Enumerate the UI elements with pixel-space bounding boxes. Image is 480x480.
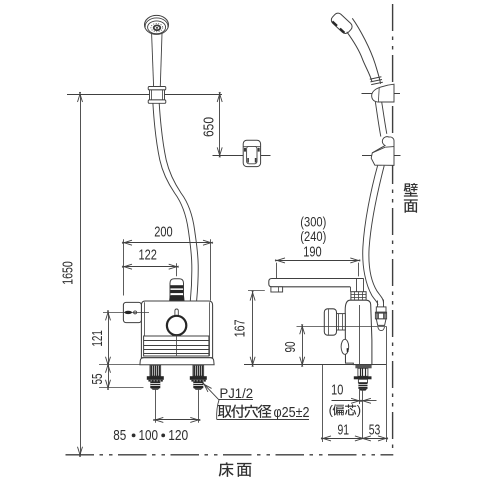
body oval (side)	[341, 339, 349, 354]
hook level line (front)	[213, 155, 271, 157]
ext line 91 left	[322, 365, 324, 442]
svg-text:(: (	[329, 403, 334, 418]
hose nipple (front)	[169, 279, 184, 301]
left inlet leg (front)	[147, 365, 164, 390]
lever knob circle (front)	[167, 316, 186, 335]
svg-text:200: 200	[154, 224, 172, 241]
ext line legs bottom	[99, 387, 144, 389]
shower handle end rings (side)	[370, 77, 383, 85]
dim 1650 text	[59, 261, 76, 285]
label 床面	[219, 462, 252, 476]
dim labels 300 240	[300, 214, 326, 245]
svg-text:55: 55	[89, 374, 106, 385]
shank axis line (bottom)	[362, 389, 364, 438]
svg-text:(240): (240)	[300, 229, 326, 245]
ext lines 190	[277, 263, 359, 285]
dim 190	[275, 244, 360, 263]
hose below hook (side)	[363, 166, 384, 305]
handle stem (side)	[337, 314, 346, 330]
shank (side)	[354, 365, 372, 391]
deck line (side)	[244, 364, 386, 366]
ext lines 200/122	[124, 239, 211, 300]
wall line (dash-dot)	[392, 4, 394, 454]
handle axis line (side)	[297, 326, 387, 328]
ext line deck left	[99, 364, 140, 366]
holder level line (front)	[67, 94, 222, 96]
dim 650 text	[201, 117, 218, 137]
faucet body (side)	[345, 300, 372, 364]
svg-text:190: 190	[303, 244, 321, 261]
hook level line (side)	[362, 155, 401, 157]
dim 167	[232, 291, 256, 367]
svg-text:90: 90	[282, 342, 299, 353]
shower head (front)	[145, 15, 169, 34]
shower head (side)	[329, 11, 353, 35]
svg-text:650: 650	[201, 117, 218, 137]
spout outlet	[271, 287, 283, 292]
dim 85 100 120	[113, 417, 200, 444]
left leg center line	[155, 390, 157, 423]
ribbed section (front)	[144, 336, 209, 356]
shower handle (side)	[347, 18, 381, 84]
svg-text:φ25±2: φ25±2	[274, 404, 310, 421]
shower hose (front)	[153, 103, 198, 301]
dim 122	[122, 247, 179, 270]
hook (side)	[371, 137, 394, 166]
spout axis line (bottom)	[359, 389, 361, 404]
dim 90	[282, 324, 305, 367]
base flange (front)	[140, 358, 214, 365]
dim 10 eccentric	[329, 382, 377, 418]
callout mounting hole dia	[217, 404, 310, 421]
temperature handle (front)	[123, 302, 141, 322]
svg-text:167: 167	[232, 320, 249, 338]
svg-text:1650: 1650	[59, 261, 76, 285]
handle axis ext line	[103, 312, 149, 314]
svg-text:53: 53	[369, 421, 381, 438]
svg-text:100: 100	[139, 427, 159, 444]
svg-text:121: 121	[89, 330, 106, 347]
shower handle (front)	[152, 34, 162, 87]
wall hook (front)	[243, 140, 260, 166]
floor line (dash-dot)	[66, 454, 394, 456]
hose into nut (side)	[378, 300, 384, 307]
lever stem (front)	[175, 309, 178, 317]
callout PJ1/2	[202, 383, 253, 420]
ext line 53 right	[386, 326, 388, 442]
label 壁面	[404, 183, 418, 213]
dim 1650 line	[78, 92, 83, 457]
ext line spout bottom	[248, 290, 265, 292]
svg-text:10: 10	[331, 382, 343, 399]
handle knob (side)	[324, 309, 336, 335]
svg-text:): )	[357, 403, 361, 418]
dim 91	[321, 421, 365, 441]
shower holder (front)	[148, 87, 166, 104]
dim 650 line	[217, 92, 222, 157]
spout nut	[351, 292, 366, 301]
svg-text:91: 91	[338, 421, 350, 438]
hose holder-to-hook (side)	[375, 102, 386, 136]
svg-text:85: 85	[113, 427, 126, 444]
holder level line (side)	[362, 93, 401, 95]
svg-text:PJ1/2: PJ1/2	[220, 385, 254, 401]
dim 121	[89, 310, 111, 366]
dim 53	[361, 421, 388, 441]
temperature mark	[124, 311, 136, 314]
right inlet leg (front)	[190, 365, 207, 390]
faucet body (front)	[141, 301, 212, 358]
dim 200	[122, 224, 213, 246]
svg-text:122: 122	[139, 247, 157, 264]
svg-text:120: 120	[168, 427, 188, 444]
shower holder (side)	[372, 84, 394, 102]
hose nut (side)	[375, 307, 386, 331]
dim 55	[89, 363, 111, 390]
right leg center line	[198, 390, 200, 423]
spout (side)	[269, 279, 364, 292]
